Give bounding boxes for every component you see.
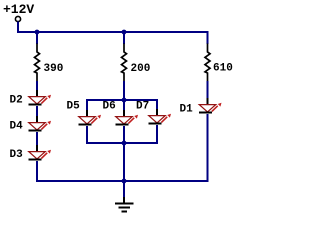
LED D7 — [149, 109, 172, 124]
wire box left drop — [86, 100, 88, 111]
ground — [115, 197, 134, 212]
wire D7 to box bottom rail — [156, 125, 158, 144]
wire bus to ground — [123, 181, 125, 197]
wire box bottom rail — [86, 142, 158, 144]
wire top bus to R390 — [36, 32, 38, 44]
svg-text:+12V: +12V — [3, 2, 34, 17]
wire D2 to D4 — [36, 106, 38, 117]
node junction bottom bus / ground — [122, 179, 127, 184]
wire D6 to bottom bus — [123, 126, 125, 182]
LED D3 — [29, 145, 52, 160]
wire box right drop — [156, 100, 158, 110]
svg-text:D6: D6 — [103, 101, 116, 113]
wire R610 to D1 — [207, 81, 209, 99]
wire R390 to D2 — [36, 81, 38, 91]
terminal +12V — [15, 16, 20, 21]
svg-text:D2: D2 — [10, 95, 23, 107]
LED D4 — [29, 116, 52, 131]
svg-text:D3: D3 — [10, 149, 24, 161]
LED D5 — [79, 110, 102, 125]
svg-text:D5: D5 — [67, 101, 81, 113]
svg-text:200: 200 — [131, 63, 151, 75]
wire top bus to R200 — [123, 32, 125, 44]
wire box top rail — [86, 99, 158, 101]
svg-text:610: 610 — [213, 63, 233, 75]
wire from +12V terminal — [17, 22, 19, 33]
LED D6 — [116, 110, 139, 125]
resistor R 390 — [35, 44, 40, 82]
wire R200 to box top rail — [123, 81, 125, 111]
wire D5 to box bottom rail — [86, 126, 88, 144]
node junction box bottom rail / middle — [122, 141, 127, 146]
wire D4 to D3 — [36, 132, 38, 146]
svg-text:390: 390 — [44, 63, 64, 75]
resistor R 610 — [205, 44, 210, 82]
svg-text:D7: D7 — [136, 101, 149, 113]
node junction box top rail / middle — [122, 98, 127, 103]
wire top bus to R610 — [207, 32, 209, 44]
svg-text:D1: D1 — [180, 104, 194, 116]
wire D3 to bottom bus — [36, 161, 38, 182]
LED D2 — [29, 90, 52, 105]
wire D1 to bottom bus — [207, 114, 209, 182]
node junction top bus / R200 branch — [122, 30, 127, 35]
svg-text:D4: D4 — [10, 121, 24, 133]
node junction top bus / R390 branch — [35, 30, 40, 35]
LED D1 — [199, 98, 222, 113]
resistor R 200 — [122, 44, 127, 82]
wire top bus — [17, 31, 209, 33]
wire bottom bus — [36, 180, 209, 182]
